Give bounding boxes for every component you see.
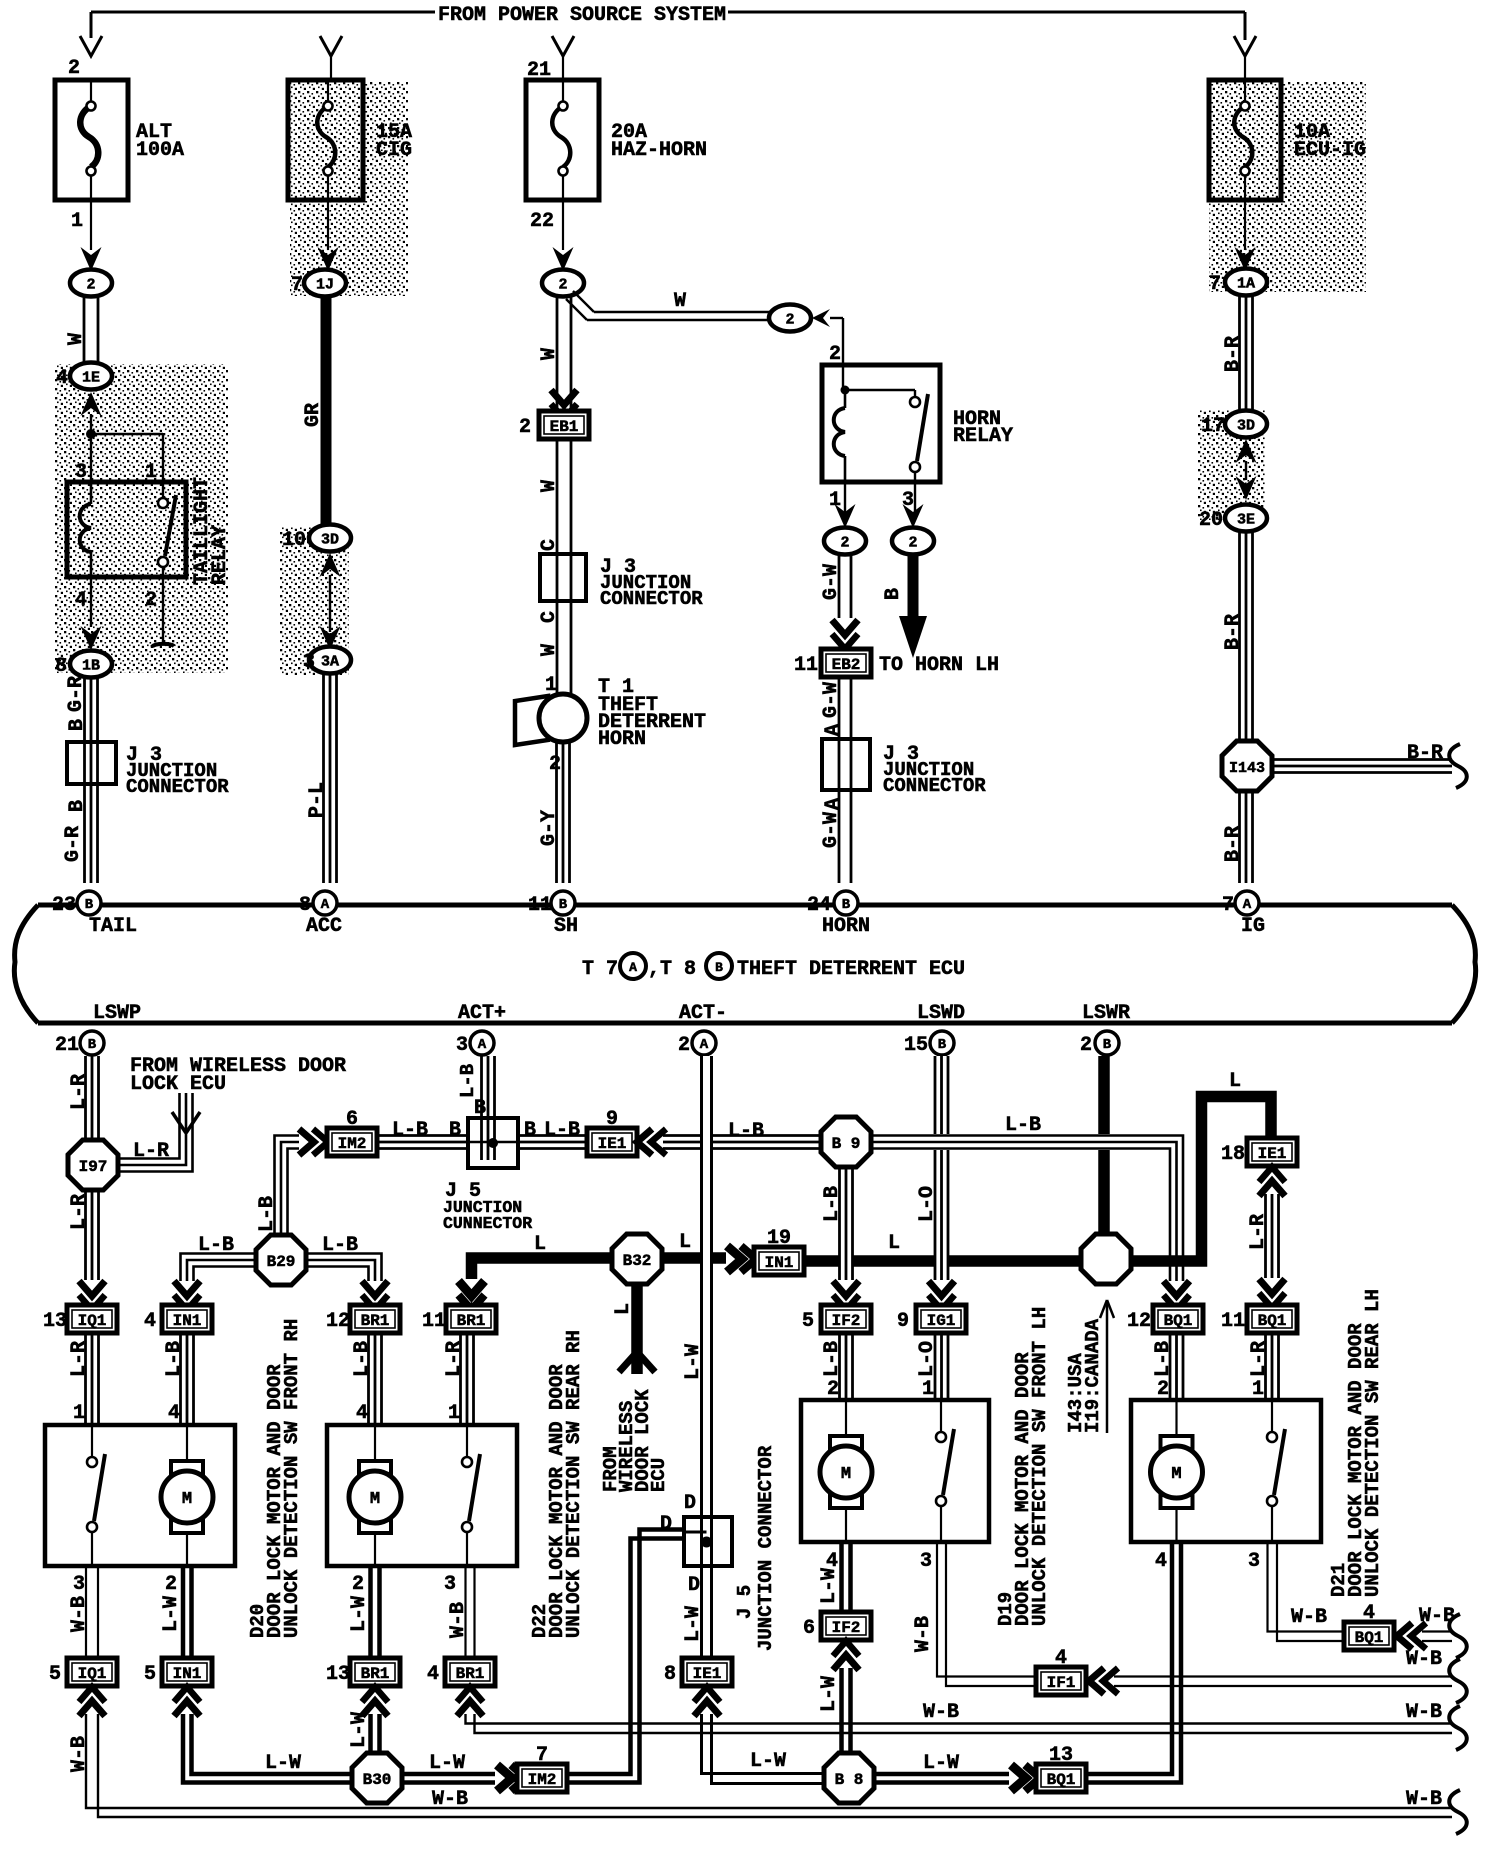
svg-text:6: 6: [346, 1108, 358, 1131]
svg-text:L-W: L-W: [348, 1596, 371, 1632]
svg-text:W-B: W-B: [1406, 1701, 1442, 1724]
connector 5 IN1: [162, 1658, 212, 1686]
svg-text:FROM POWER SOURCE SYSTEM: FROM POWER SOURCE SYSTEM: [438, 4, 726, 27]
svg-text:4: 4: [56, 367, 68, 390]
svg-text:21: 21: [55, 1034, 79, 1057]
svg-text:L-W: L-W: [750, 1750, 786, 1773]
wire W-B (4 IF1 to right edge): [1114, 1675, 1452, 1677]
wire W (to EB1): [556, 296, 559, 412]
connector 20 3E: [1225, 505, 1267, 532]
svg-text:D: D: [660, 1513, 672, 1536]
svg-text:C: C: [538, 611, 561, 623]
wire L from wireless door lock ECU - thick stub into B32: [631, 1282, 643, 1374]
connector 2 (horn relay pin 3): [892, 528, 934, 555]
connector 12 BQ1: [1153, 1305, 1203, 1333]
wire L-R from wireless door lock ECU to I97: [118, 1093, 180, 1159]
svg-text:12: 12: [326, 1310, 350, 1333]
svg-text:LSWD: LSWD: [917, 1002, 965, 1025]
svg-text:21: 21: [527, 59, 551, 82]
svg-text:J 5: J 5: [734, 1585, 756, 1619]
junction B8: [824, 1753, 874, 1803]
connector 12 BR1: [350, 1305, 400, 1333]
svg-text:B: B: [449, 1119, 461, 1142]
svg-text:3: 3: [444, 1573, 456, 1596]
junction connector J3 (horn): [822, 739, 986, 797]
svg-text:B: B: [882, 588, 905, 600]
connector 6 IM2: [327, 1128, 377, 1156]
ECU pin 11 B SH: [551, 891, 575, 915]
connector 2 (ALT): [70, 270, 112, 297]
connector 2 (horn relay feed): [769, 305, 811, 332]
svg-text:W: W: [538, 644, 561, 656]
svg-text:11: 11: [528, 894, 552, 917]
connector 13 BQ1: [1036, 1764, 1086, 1792]
svg-text:HAZ-HORN: HAZ-HORN: [611, 139, 707, 162]
svg-text:UNLOCK DETECTION SW FRONT LH: UNLOCK DETECTION SW FRONT LH: [1029, 1307, 1051, 1626]
svg-text:EB2: EB2: [832, 656, 861, 674]
connector 18 IE1: [1247, 1138, 1297, 1166]
horn relay: [822, 365, 1013, 482]
svg-text:7: 7: [1222, 894, 1234, 917]
svg-text:W-B: W-B: [1406, 1788, 1442, 1811]
svg-text:11: 11: [794, 654, 818, 677]
svg-text:2: 2: [908, 535, 917, 552]
svg-text:L-B: L-B: [198, 1234, 234, 1257]
connector 6 IF2: [821, 1612, 871, 1640]
svg-text:G-R: G-R: [62, 826, 85, 862]
svg-text:5: 5: [802, 1310, 814, 1333]
svg-text:L-B: L-B: [544, 1119, 580, 1142]
svg-text:4: 4: [75, 589, 87, 612]
svg-text:13: 13: [1049, 1744, 1073, 1767]
svg-text:HORN: HORN: [822, 915, 870, 938]
svg-text:EB1: EB1: [550, 418, 579, 436]
svg-text:IN1: IN1: [173, 1665, 202, 1683]
svg-text:3D: 3D: [1237, 418, 1255, 435]
connector 13 IQ1: [67, 1305, 117, 1333]
svg-text:23: 23: [52, 894, 76, 917]
svg-text:LSWR: LSWR: [1082, 1002, 1130, 1025]
svg-text:L-W: L-W: [160, 1596, 183, 1632]
wire B to horn LH - thick: [908, 554, 919, 618]
ECU pin 8 A ACC: [313, 891, 337, 915]
wire L-W (6 IF2 to B8): [839, 1668, 844, 1755]
svg-text:8: 8: [664, 1663, 676, 1686]
svg-text:D: D: [684, 1492, 696, 1515]
svg-text:M: M: [841, 1465, 851, 1484]
svg-text:5: 5: [49, 1663, 61, 1686]
svg-text:7: 7: [291, 274, 303, 297]
svg-text:3: 3: [73, 1573, 85, 1596]
svg-text:L-B: L-B: [821, 1186, 844, 1222]
svg-text:RELAY: RELAY: [953, 425, 1013, 448]
svg-text:G-W: G-W: [820, 682, 843, 718]
fuse 10A ECU-IG: [1209, 80, 1366, 200]
wire L-O (LSWD to 9 IG1): [935, 1056, 949, 1280]
wire B-R (1A to 3D): [1238, 295, 1241, 411]
svg-text:20: 20: [1199, 509, 1223, 532]
svg-text:W: W: [674, 290, 686, 313]
wire fuse HAZ-HORN to connector 2: [562, 200, 564, 250]
connector 8 1B: [70, 651, 112, 678]
theft deterrent ECU band: [14, 905, 1475, 1023]
svg-text:7: 7: [536, 1744, 548, 1767]
svg-text:9: 9: [897, 1310, 909, 1333]
svg-text:L-B: L-B: [1005, 1114, 1041, 1137]
connector 4 1E: [70, 363, 112, 390]
svg-text:W-B: W-B: [1406, 1648, 1442, 1671]
connector 2 (HAZ-HORN): [542, 270, 584, 297]
svg-text:BR1: BR1: [457, 1312, 486, 1330]
wire L-B (B29 up to 6 IM2): [275, 1136, 300, 1238]
svg-text:2: 2: [549, 753, 561, 776]
wire taillight relay pin 2 stub: [162, 577, 164, 644]
junction I97: [68, 1140, 118, 1190]
svg-text:2: 2: [678, 1034, 690, 1057]
svg-text:6: 6: [803, 1617, 815, 1640]
wire L-B (B29 to 4 IN1): [181, 1254, 257, 1282]
junction connector J5 (upper): [443, 1118, 532, 1233]
junction B9: [821, 1117, 871, 1167]
svg-text:BR1: BR1: [456, 1665, 485, 1683]
svg-text:1: 1: [145, 461, 157, 484]
svg-text:7: 7: [1209, 273, 1221, 296]
wire B-R (I143 to ECU IG): [1238, 791, 1241, 883]
fuse 20A HAZ-HORN: [526, 59, 707, 233]
wire L-W (13 BQ1 to D21 pin4): [1086, 1542, 1172, 1774]
wire L-W (B8 to 13 BQ1): [874, 1772, 1009, 1777]
svg-text:A: A: [478, 1037, 487, 1053]
svg-text:CIG: CIG: [376, 139, 412, 162]
junction connector J3 (SH): [540, 554, 703, 610]
svg-text:2: 2: [145, 589, 157, 612]
svg-text:3: 3: [303, 651, 315, 674]
wire P-L (3A to ECU ACC): [322, 673, 325, 883]
svg-text:LOCK ECU: LOCK ECU: [130, 1073, 226, 1096]
connector 4 IF1: [1036, 1667, 1086, 1695]
wire to horn relay: [830, 317, 843, 319]
wire 3D to 3E: [1236, 439, 1257, 463]
svg-text:L-B: L-B: [163, 1341, 186, 1377]
wire W-B (4 BR1 to right edge): [466, 1714, 1453, 1724]
svg-text:BQ1: BQ1: [1355, 1629, 1384, 1647]
svg-text:3: 3: [920, 1550, 932, 1573]
wire L-R (I97 to 13 IQ1): [84, 1191, 87, 1280]
wire L (B32 to 19 IN1) - thick: [660, 1252, 726, 1264]
svg-text:L: L: [888, 1232, 900, 1255]
svg-text:W-B: W-B: [923, 1701, 959, 1724]
svg-text:2: 2: [68, 57, 80, 80]
wire L-W (5 IN1 to B30): [183, 1714, 354, 1783]
junction B32: [612, 1234, 662, 1284]
svg-text:IQ1: IQ1: [78, 1312, 107, 1330]
wire L-B (IN1 to D20 motor): [179, 1333, 182, 1423]
svg-text:3E: 3E: [1237, 512, 1255, 529]
svg-text:10: 10: [282, 529, 306, 552]
wire 3D to 3A: [320, 553, 341, 577]
svg-text:A: A: [1243, 897, 1252, 913]
connector 7 IM2: [517, 1764, 567, 1792]
svg-text:1: 1: [922, 1378, 934, 1401]
svg-text:GR: GR: [302, 403, 325, 427]
svg-text:13: 13: [43, 1310, 67, 1333]
wire L-W (IM2 to J5 lower): [567, 1539, 684, 1775]
wire B-R branch (I143 to right): [1272, 758, 1452, 761]
svg-text:ACC: ACC: [306, 915, 342, 938]
wire A / G-W (J3 to ECU HORN): [838, 790, 841, 883]
svg-text:JUNCTION CONNECTOR: JUNCTION CONNECTOR: [755, 1445, 777, 1651]
svg-text:B: B: [842, 897, 851, 913]
svg-text:2: 2: [558, 277, 567, 294]
svg-text:3: 3: [75, 461, 87, 484]
svg-text:18: 18: [1221, 1143, 1245, 1166]
connector 11 BQ1: [1247, 1305, 1297, 1333]
svg-text:L-W: L-W: [818, 1676, 841, 1712]
wire W (ALT to 1E): [83, 296, 86, 363]
wire L-R (11 BR1 to D22 switch): [459, 1333, 462, 1423]
wire L (B32 to 11 BR1) - thick: [472, 1258, 615, 1279]
connector 9 IG1: [916, 1305, 966, 1333]
svg-text:B-R: B-R: [1222, 336, 1245, 372]
svg-text:IE1: IE1: [598, 1135, 627, 1153]
wire L-B (IF2 to D19 motor): [838, 1333, 841, 1398]
junction connector J5 (lower): [660, 1445, 777, 1651]
svg-text:3: 3: [456, 1034, 468, 1057]
svg-text:L-B: L-B: [1152, 1341, 1175, 1377]
svg-text:19: 19: [767, 1227, 791, 1250]
svg-text:BQ1: BQ1: [1047, 1771, 1076, 1789]
svg-text:22: 22: [530, 210, 554, 233]
svg-text:1A: 1A: [1237, 276, 1255, 293]
connector 7 1A: [1225, 269, 1267, 296]
connector 4 IN1: [162, 1305, 212, 1333]
wire B-R (3E to I143): [1238, 531, 1241, 741]
svg-text:ECU-IG: ECU-IG: [1294, 139, 1366, 162]
svg-text:L-B: L-B: [728, 1120, 764, 1143]
svg-text:L-R: L-R: [68, 1074, 91, 1110]
svg-text:B: B: [66, 800, 89, 812]
shaded region around connectors 3D/3E: [1198, 410, 1265, 520]
svg-text:L-O: L-O: [916, 1186, 939, 1222]
svg-text:2: 2: [1157, 1378, 1169, 1401]
svg-text:L-W: L-W: [429, 1752, 465, 1775]
svg-text:1J: 1J: [316, 277, 334, 294]
svg-text:I97: I97: [79, 1158, 108, 1176]
theft deterrent horn T1: [515, 676, 706, 751]
junction I143: [1222, 741, 1272, 791]
svg-text:UNLOCK DETECTION SW REAR LH: UNLOCK DETECTION SW REAR LH: [1362, 1289, 1384, 1597]
svg-text:D: D: [688, 1574, 700, 1597]
svg-text:CONNECTOR: CONNECTOR: [126, 776, 229, 798]
wire L-W (B30 to 7 IM2): [402, 1772, 495, 1777]
svg-text:1: 1: [448, 1402, 460, 1425]
svg-text:IM2: IM2: [528, 1771, 557, 1789]
svg-text:L-R: L-R: [133, 1140, 169, 1163]
connector 2 EB1: [539, 411, 589, 439]
svg-text:L-O: L-O: [916, 1341, 939, 1377]
svg-text:TAIL: TAIL: [89, 915, 137, 938]
svg-text:L-W: L-W: [265, 1752, 301, 1775]
svg-text:BQ1: BQ1: [1258, 1312, 1287, 1330]
wire L-W (8 IE1 to B8): [702, 1714, 825, 1774]
door lock motor D19 (front LH): [801, 1400, 989, 1542]
svg-text:3: 3: [1248, 1550, 1260, 1573]
svg-text:BR1: BR1: [361, 1665, 390, 1683]
wire L-B / B (ACT+ to J5): [480, 1056, 483, 1120]
svg-text:1: 1: [73, 1402, 85, 1425]
svg-text:ACT-: ACT-: [679, 1002, 727, 1025]
svg-text:CUNNECTOR: CUNNECTOR: [443, 1214, 532, 1233]
connector 7 1J: [304, 270, 346, 297]
svg-text:B 8: B 8: [835, 1771, 864, 1789]
svg-text:M: M: [1171, 1465, 1181, 1484]
svg-text:CONNECTOR: CONNECTOR: [883, 775, 986, 797]
svg-text:B-R: B-R: [1407, 742, 1443, 765]
wire L-W (ACT- to junction J5): [700, 1056, 713, 1517]
ECU pin 7 A IG: [1235, 891, 1259, 915]
wire L-B (B29 to 12 BR1): [306, 1254, 382, 1282]
svg-text:2: 2: [785, 312, 794, 329]
wire fuse ALT to connector 2: [90, 200, 92, 250]
shaded region around ECU-IG fuse: [1209, 82, 1366, 292]
svg-text:T 7: T 7: [582, 958, 618, 981]
svg-text:L-R: L-R: [68, 1194, 91, 1230]
junction B30: [352, 1753, 402, 1803]
svg-text:2: 2: [352, 1573, 364, 1596]
svg-text:2: 2: [519, 416, 531, 439]
svg-text:IG1: IG1: [927, 1312, 956, 1330]
svg-text:4: 4: [144, 1310, 156, 1333]
wire fuse CIG to connector 1J: [327, 200, 329, 250]
svg-text:15: 15: [904, 1034, 928, 1057]
wire L-B (12 BR1 to D22 motor): [367, 1333, 370, 1423]
svg-text:IF2: IF2: [832, 1312, 861, 1330]
svg-text:ECU: ECU: [648, 1458, 670, 1492]
wire L-R (18 IE1 to 11 BQ1): [1264, 1194, 1267, 1278]
svg-text:B32: B32: [623, 1252, 652, 1270]
svg-text:L-B: L-B: [392, 1119, 428, 1142]
svg-text:M: M: [370, 1490, 380, 1509]
svg-text:L-B: L-B: [351, 1341, 374, 1377]
svg-text:L: L: [1229, 1070, 1241, 1093]
svg-text:L-B: L-B: [821, 1341, 844, 1377]
svg-text:8: 8: [299, 894, 311, 917]
svg-text:SH: SH: [554, 915, 578, 938]
svg-text:8: 8: [55, 655, 67, 678]
svg-text:W-B: W-B: [912, 1616, 935, 1652]
wire B / L-B (J5 to 9 IE1): [518, 1134, 587, 1137]
svg-text:G-W: G-W: [820, 564, 843, 600]
svg-text:P-L: P-L: [306, 782, 329, 818]
svg-text:L-W: L-W: [818, 1568, 841, 1604]
ECU pin 24 B HORN: [834, 891, 858, 915]
svg-text:W: W: [538, 480, 561, 492]
svg-text:L-W: L-W: [348, 1712, 371, 1748]
taillight relay: [67, 461, 232, 612]
arrow into CIG fuse: [320, 36, 342, 56]
connector 11 BR1: [446, 1305, 496, 1333]
svg-text:24: 24: [807, 894, 831, 917]
svg-text:BR1: BR1: [361, 1312, 390, 1330]
wire from power source system - header line: [91, 11, 435, 14]
connector 4 BQ1: [1344, 1622, 1394, 1650]
svg-text:A: A: [822, 798, 845, 810]
svg-text:L-R: L-R: [1247, 1214, 1270, 1250]
svg-text:L-B: L-B: [256, 1196, 279, 1232]
arrow into ECU-IG fuse: [1234, 36, 1256, 56]
connector 5 IQ1: [67, 1658, 117, 1686]
svg-text:G-W: G-W: [820, 812, 843, 848]
svg-text:A: A: [321, 897, 330, 913]
svg-text:THEFT DETERRENT ECU: THEFT DETERRENT ECU: [737, 958, 965, 981]
wire fuse ECU-IG to connector 1A: [1244, 200, 1246, 250]
junction B29: [256, 1235, 306, 1285]
svg-text:B30: B30: [363, 1771, 392, 1789]
svg-text:L-R: L-R: [443, 1341, 466, 1377]
wire G-R / B (1B to junction J3): [83, 677, 86, 883]
svg-text:5: 5: [144, 1663, 156, 1686]
wire 1E to taillight relay: [81, 392, 102, 416]
wire W-B (5 IQ1 to right edge): [86, 1714, 1452, 1808]
connector 13 BR1: [350, 1658, 400, 1686]
svg-text:IE1: IE1: [693, 1665, 722, 1683]
svg-text:IN1: IN1: [173, 1312, 202, 1330]
wire L-B (B9 to 12 BQ1): [871, 1134, 1190, 1150]
svg-text:2: 2: [840, 535, 849, 552]
svg-text:W: W: [538, 348, 561, 360]
wire G-W / A (EB2 to junction J3): [838, 677, 841, 739]
svg-text:W: W: [65, 333, 88, 345]
svg-text:L: L: [679, 1231, 691, 1254]
svg-text:B: B: [85, 897, 94, 913]
svg-text:W-B: W-B: [432, 1788, 468, 1811]
wire W-B (4 BQ1 to right edge): [1422, 1630, 1452, 1632]
wire L-B (B9 to 5 IF2): [839, 1168, 853, 1280]
svg-text:L-B: L-B: [322, 1234, 358, 1257]
svg-text:IN1: IN1: [765, 1254, 794, 1272]
svg-text:CONNECTOR: CONNECTOR: [600, 588, 703, 610]
svg-text:W-B: W-B: [68, 1736, 91, 1772]
svg-text:UNLOCK DETECTION SW REAR RH: UNLOCK DETECTION SW REAR RH: [563, 1330, 585, 1638]
wire GR (1J to 3D) - thick: [321, 296, 332, 526]
svg-text:9: 9: [606, 1108, 618, 1131]
arrow into HAZ-HORN fuse: [552, 36, 574, 56]
wire W / C (EB1 to junction J3): [556, 439, 559, 554]
svg-text:B-R: B-R: [1222, 826, 1245, 862]
svg-text:B29: B29: [267, 1253, 296, 1271]
shaded region around taillight relay: [54, 364, 228, 673]
svg-text:UNLOCK DETECTION SW FRONT RH: UNLOCK DETECTION SW FRONT RH: [281, 1319, 303, 1638]
connector 2 (horn relay pin 1): [824, 528, 866, 555]
svg-text:LSWP: LSWP: [93, 1002, 141, 1025]
wire L (I43 junction to 18 IE1) - thick: [1129, 1097, 1271, 1262]
svg-text:L: L: [612, 1303, 635, 1315]
wire L-B / B (IM2 to J5): [377, 1134, 468, 1137]
svg-text:IF1: IF1: [1047, 1674, 1076, 1692]
svg-text:ACT+: ACT+: [458, 1002, 506, 1025]
svg-text:A: A: [700, 1037, 709, 1053]
connector 11 EB2: [821, 649, 871, 677]
connector 9 IE1: [587, 1128, 637, 1156]
shaded region around connectors 3D/3A: [279, 527, 349, 676]
connector 5 IF2: [821, 1305, 871, 1333]
svg-text:L: L: [534, 1233, 546, 1256]
fuse ALT 100A: [55, 57, 184, 233]
wire L-O (IG1 to D19 switch): [934, 1333, 937, 1398]
svg-text:W-B: W-B: [447, 1602, 470, 1638]
svg-text:A: A: [822, 724, 845, 736]
connector 4 BR1: [445, 1658, 495, 1686]
